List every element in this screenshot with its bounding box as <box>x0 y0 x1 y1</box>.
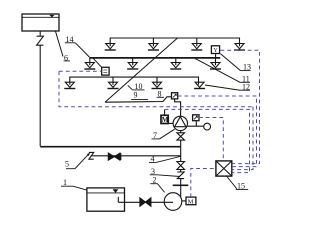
leader 6 (from tank bottom) <box>55 31 63 57</box>
label 6 <box>64 53 70 62</box>
box M2 sensor on dashed boundary <box>102 67 109 75</box>
wire: motor bus to bundle v2 <box>165 109 250 172</box>
nozzle row3 #2 <box>108 77 119 88</box>
label 14 <box>65 35 76 44</box>
tank 6 (upper oil tank) <box>22 14 59 31</box>
label 11 <box>195 58 250 83</box>
svg-text:1: 1 <box>63 178 67 187</box>
pipe 2: middle spray manifold (bold) <box>90 57 220 59</box>
control wiring (dashed blue) <box>59 50 260 197</box>
gate valve on suction (filled bowtie) <box>140 198 151 206</box>
svg-text:Y: Y <box>213 48 218 54</box>
nozzle row1 #4 <box>234 44 245 51</box>
wire: motor M2 to box 15 <box>191 169 216 198</box>
label 1 <box>61 178 87 190</box>
label 2 <box>150 176 164 193</box>
nozzle row1 #1 <box>105 44 116 51</box>
svg-text:9: 9 <box>134 90 138 99</box>
controller box 15 <box>216 161 232 176</box>
motor box M of pump 2 <box>182 197 196 206</box>
wire: diagonal link pipe2 to box M2 <box>93 58 102 67</box>
svg-text:M: M <box>162 116 169 124</box>
flow switch box 8 <box>172 93 178 99</box>
label 5 <box>65 153 90 169</box>
wire: motor control stub <box>164 110 166 116</box>
pipe 3: lower spray manifold <box>70 77 199 85</box>
solenoid box Y on pipe2 end <box>211 46 219 58</box>
valve on pump suction (vertical bowtie) <box>177 131 185 147</box>
dashed enclosure around spray zone <box>59 71 253 107</box>
label 4 <box>149 155 180 164</box>
wire: gauge line from pump <box>188 125 204 127</box>
pressure gauge <box>204 123 211 130</box>
nozzle row2 #4 <box>210 58 221 69</box>
label 10 <box>128 82 145 91</box>
wire: left supply pipe down <box>39 45 41 146</box>
break symbol Z on riser <box>177 172 184 179</box>
nozzle row1 #2 <box>148 38 159 50</box>
wire: box 8 to bundle v4 <box>178 96 257 167</box>
label 15 <box>227 176 249 191</box>
diagonal surface line D1 <box>105 38 178 102</box>
nozzle row3 #4 <box>194 82 205 88</box>
flange tick <box>173 184 189 186</box>
pump 7 motor box <box>161 115 169 124</box>
label 3 <box>150 167 180 177</box>
pump 7 (circle with triangle) <box>173 116 187 130</box>
leader 14 to pipe2 <box>75 43 90 58</box>
pipe: bottom supply line (bold) <box>40 146 181 148</box>
wire: riser to pump 2 <box>180 170 182 173</box>
line 2: return line with check valve <box>89 152 181 160</box>
nozzle row2 #2 <box>127 58 138 69</box>
nozzle row3 #1 <box>64 82 75 88</box>
nozzle row3 #3 <box>152 77 163 88</box>
break symbol Z below tank <box>37 36 44 45</box>
label 13 <box>221 54 252 72</box>
wire: tank outlet stub <box>39 31 41 36</box>
baseline of sprayed surface <box>105 97 171 102</box>
nozzle row1 #3 <box>191 38 202 50</box>
wire: vertical main between junctions <box>180 147 182 162</box>
valve lower (vertical bowtie) <box>177 162 185 170</box>
nozzle row2 #3 <box>170 58 181 69</box>
label 7 <box>152 129 175 140</box>
pipe: top spray manifold <box>110 38 239 46</box>
label 12 <box>205 82 250 91</box>
wire: suction line tank1 to pump2 <box>118 201 173 203</box>
pressure switch box <box>193 115 199 126</box>
svg-text:M: M <box>188 199 194 206</box>
label 9 <box>131 90 148 99</box>
wire: solenoid Y to bundle v1 <box>221 50 260 163</box>
tank 1 (lower oil tank) <box>87 188 125 211</box>
pump 2 (bottom pump) <box>164 193 182 211</box>
wire: enclosure to bundle v3 <box>232 107 253 170</box>
wire: pump discharge to box 8 <box>175 99 181 117</box>
wire: pressure switch to box 15 top <box>199 118 223 161</box>
svg-text:5: 5 <box>65 159 69 168</box>
label 8 <box>157 89 164 98</box>
wire: motor coupling <box>168 122 173 124</box>
nozzle row2 #1 <box>84 58 95 69</box>
